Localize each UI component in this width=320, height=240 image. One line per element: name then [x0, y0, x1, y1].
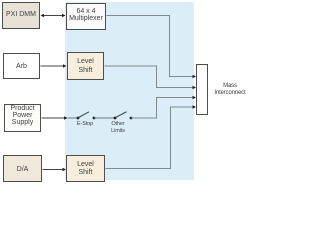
label Mass Interconnect — [212, 83, 248, 96]
label E-Stop — [71, 121, 99, 128]
wire Multiplexer to Mass Interconnect — [107, 16, 197, 79]
block Level Shift (top) — [67, 52, 104, 80]
label Other Limits — [104, 121, 132, 135]
wire Product Power Supply to E-Stop switch (arrow) — [42, 116, 78, 119]
block Mass Interconnect — [196, 64, 208, 115]
block 64 x 4 Multiplexer — [66, 3, 106, 30]
panel: light blue background region — [65, 2, 194, 180]
wire Level Shift (bottom) to Mass Interconnect — [106, 105, 197, 168]
block PXI DMM — [2, 2, 40, 29]
block Product Power Supply — [4, 104, 41, 132]
switch E-Stop — [77, 112, 96, 120]
wire E-Stop to Other Limits switch — [94, 117, 115, 119]
switch Other Limits — [114, 112, 133, 120]
wire Level Shift (top) to Mass Interconnect — [105, 66, 197, 89]
block Level Shift (bottom) — [66, 155, 105, 182]
wire PXI DMM to Multiplexer (double arrow) — [41, 14, 66, 17]
wire D/A to Level Shift (arrow) — [43, 168, 67, 171]
wire Other Limits to Mass Interconnect — [131, 96, 196, 118]
block D/A — [3, 155, 42, 182]
block Arb — [3, 53, 40, 79]
wire Arb to Level Shift (arrow) — [41, 64, 67, 67]
